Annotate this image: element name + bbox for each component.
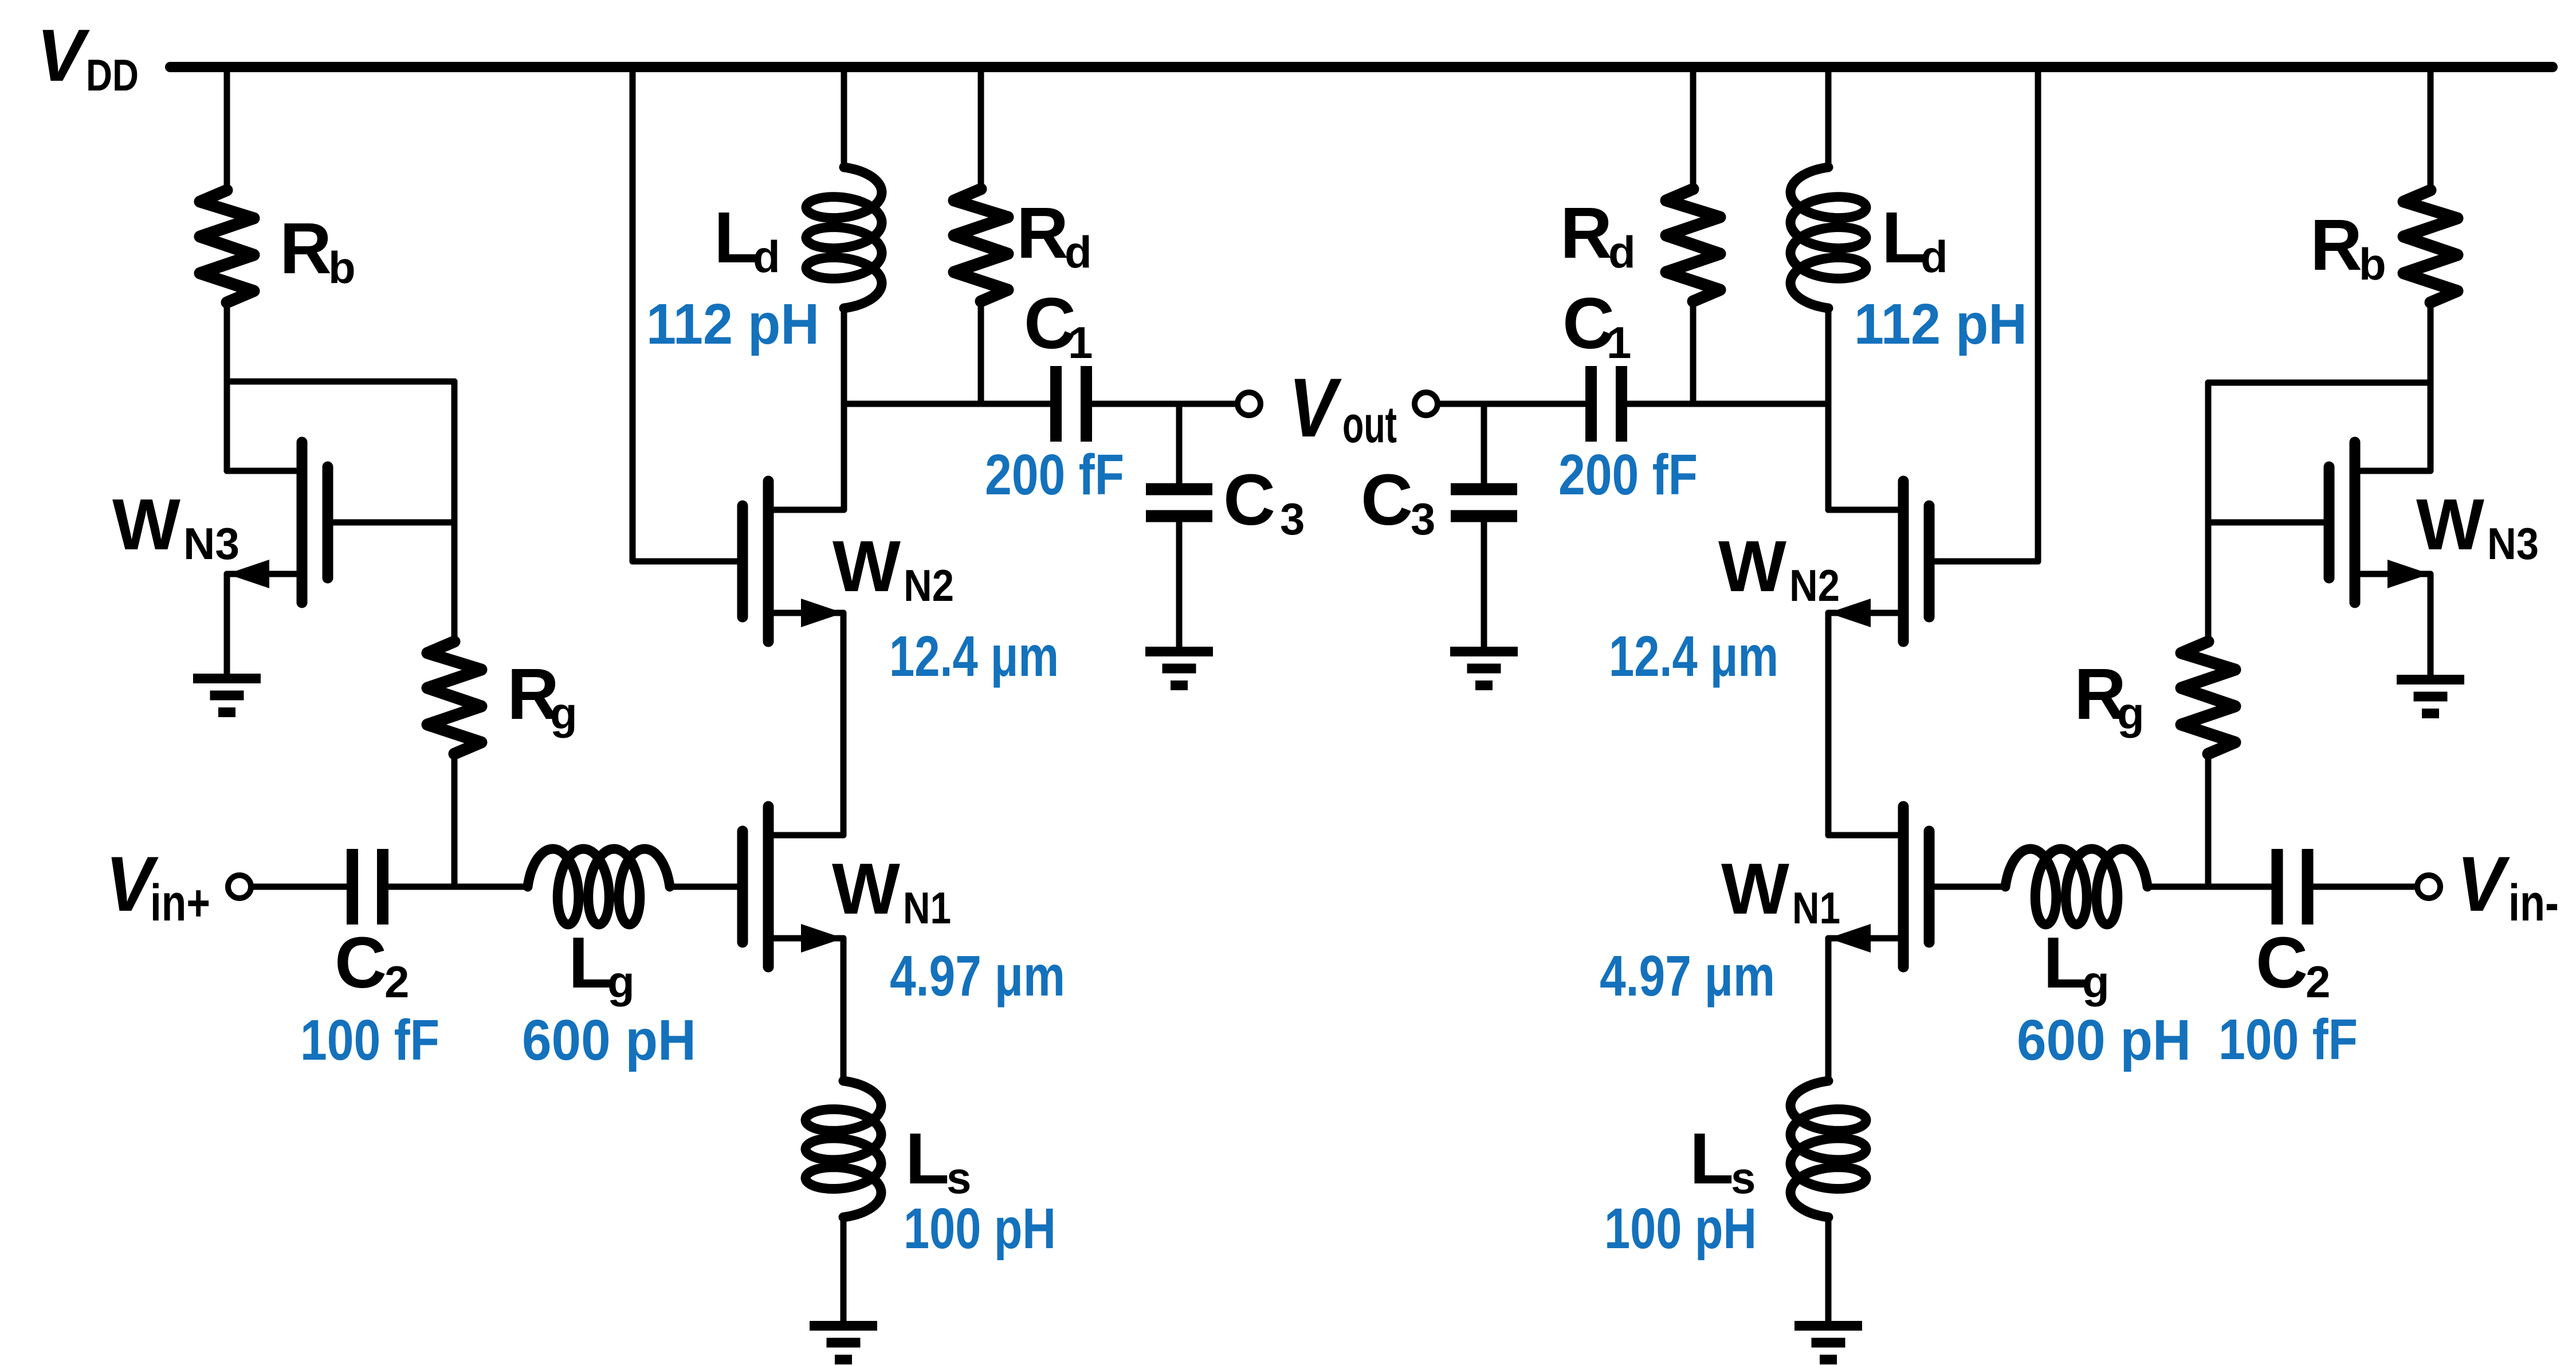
svg-text:L: L [714,197,758,278]
svg-text:4.97 μm: 4.97 μm [1600,944,1775,1008]
svg-text:V: V [37,14,91,97]
svg-text:b: b [2359,239,2386,289]
svg-text:N2: N2 [904,560,954,611]
svg-text:200 fF: 200 fF [985,443,1124,507]
svg-text:N3: N3 [183,518,239,569]
svg-text:R: R [1016,192,1069,273]
svg-text:100 pH: 100 pH [904,1197,1056,1261]
svg-text:C: C [335,922,387,1003]
svg-text:W: W [833,526,901,607]
svg-text:g: g [607,957,635,1007]
svg-text:N3: N3 [2487,518,2539,569]
svg-text:3: 3 [1280,494,1305,544]
svg-text:N1: N1 [903,883,951,933]
svg-text:L: L [2043,922,2087,1003]
svg-text:W: W [1718,526,1786,607]
svg-text:C: C [2256,922,2308,1003]
svg-text:12.4 μm: 12.4 μm [889,624,1059,689]
svg-text:in+: in+ [150,875,210,932]
svg-text:C: C [1223,459,1275,540]
svg-text:out: out [1342,396,1397,454]
svg-text:L: L [568,922,612,1003]
svg-text:100 fF: 100 fF [2218,1008,2358,1072]
svg-text:s: s [947,1152,971,1203]
svg-text:L: L [1882,197,1926,278]
svg-text:L: L [905,1118,949,1199]
svg-text:4.97 μm: 4.97 μm [890,944,1065,1008]
svg-text:in-: in- [2508,875,2559,932]
svg-text:g: g [2082,957,2110,1007]
svg-text:R: R [280,208,332,289]
svg-text:b: b [328,242,356,293]
svg-text:d: d [1921,231,1948,282]
svg-text:R: R [2310,204,2362,285]
svg-text:V: V [2457,840,2511,927]
svg-text:200 fF: 200 fF [1558,443,1698,507]
svg-text:W: W [832,848,900,929]
svg-text:1: 1 [1607,317,1631,368]
svg-text:2: 2 [384,957,409,1007]
svg-text:112 pH: 112 pH [646,292,819,356]
svg-text:d: d [753,231,780,282]
svg-text:12.4 μm: 12.4 μm [1609,624,1778,689]
svg-text:R: R [1560,192,1612,273]
svg-text:3: 3 [1411,494,1435,544]
svg-text:1: 1 [1068,317,1093,368]
svg-text:N1: N1 [1792,883,1840,933]
svg-text:V: V [1289,361,1342,454]
svg-text:C: C [1361,459,1413,540]
svg-text:600 pH: 600 pH [522,1008,696,1072]
svg-text:W: W [112,484,180,565]
svg-text:W: W [2416,484,2484,565]
svg-text:s: s [1731,1152,1756,1203]
svg-text:DD: DD [86,50,139,100]
svg-text:600 pH: 600 pH [2017,1008,2191,1072]
svg-text:d: d [1608,227,1636,277]
svg-text:L: L [1690,1118,1734,1199]
svg-text:2: 2 [2306,957,2330,1007]
svg-text:W: W [1721,848,1789,929]
svg-text:d: d [1065,227,1092,277]
svg-text:g: g [2117,688,2145,738]
svg-text:112 pH: 112 pH [1854,292,2027,356]
svg-text:g: g [550,688,578,738]
svg-text:100 fF: 100 fF [300,1008,439,1072]
svg-text:N2: N2 [1789,560,1840,611]
svg-text:100 pH: 100 pH [1604,1197,1757,1261]
